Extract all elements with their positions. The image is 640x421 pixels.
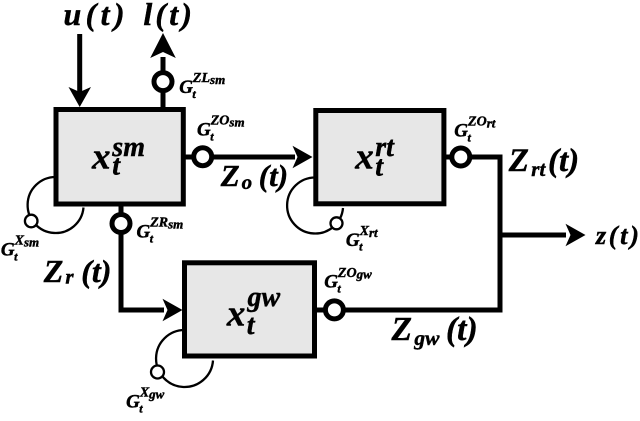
self-loop on block x_sm xyxy=(28,177,84,233)
svg-text:(t): (t) xyxy=(446,311,478,348)
wire Z_gw(t) from x_gw to trunk xyxy=(317,308,503,313)
self-loop gain node circle of G_X_rt xyxy=(331,217,343,229)
wire l(t) output stub from x_sm top xyxy=(161,92,166,109)
svg-text:Z: Z xyxy=(43,253,64,289)
svg-text:r: r xyxy=(65,264,74,288)
arrowhead z(t) xyxy=(566,224,586,246)
svg-text:Z: Z xyxy=(508,143,529,179)
block x_sm xyxy=(56,110,183,205)
arrowhead Z_r(t) xyxy=(163,299,183,321)
svg-text:(t): (t) xyxy=(259,158,288,193)
svg-text:t: t xyxy=(375,151,384,182)
svg-text:gw: gw xyxy=(413,326,440,350)
wire l(t) above node circle xyxy=(161,57,166,72)
self-loop on block x_gw xyxy=(156,330,213,387)
svg-text:Z: Z xyxy=(391,311,412,348)
svg-text:gw: gw xyxy=(247,282,281,313)
self-loop on block x_rt xyxy=(287,178,343,234)
port node circle G_ZR_sm xyxy=(112,215,130,233)
port node circle G_ZO_rt xyxy=(452,148,470,166)
svg-text:t: t xyxy=(112,151,121,182)
wire Z_r(t) from x_sm bottom down and right to x_gw xyxy=(121,204,164,310)
wire Z_o(t) from x_sm to x_rt xyxy=(185,155,295,160)
arrowhead l(t) xyxy=(150,33,176,58)
port node circle G_ZL_sm xyxy=(154,73,172,91)
wire Z_rt(t) from x_rt right to trunk xyxy=(446,157,500,312)
wire u(t) input into x_sm xyxy=(77,34,82,93)
svg-text:x: x xyxy=(91,136,111,177)
port node circle G_ZO_sm xyxy=(194,148,212,166)
svg-text:Z: Z xyxy=(220,158,240,193)
svg-text:x: x xyxy=(354,136,374,177)
svg-text:x: x xyxy=(226,294,246,335)
wire z(t) branch xyxy=(498,233,567,238)
arrowhead Z_o(t) xyxy=(293,146,313,168)
svg-text:z(t): z(t) xyxy=(595,220,639,250)
arrowhead u(t) xyxy=(69,87,92,107)
block x_gw xyxy=(185,263,315,356)
svg-text:o: o xyxy=(242,170,253,194)
block x_rt xyxy=(316,111,444,204)
port node circle G_ZO_gw xyxy=(325,301,343,319)
self-loop gain node circle of G_X_sm xyxy=(25,215,38,228)
svg-text:u(t): u(t) xyxy=(64,0,125,32)
svg-text:t: t xyxy=(247,310,256,341)
svg-text:(t): (t) xyxy=(548,143,579,179)
svg-text:(t): (t) xyxy=(81,253,111,289)
self-loop gain node circle of G_X_gw xyxy=(151,366,164,379)
svg-text:rt: rt xyxy=(531,157,546,181)
